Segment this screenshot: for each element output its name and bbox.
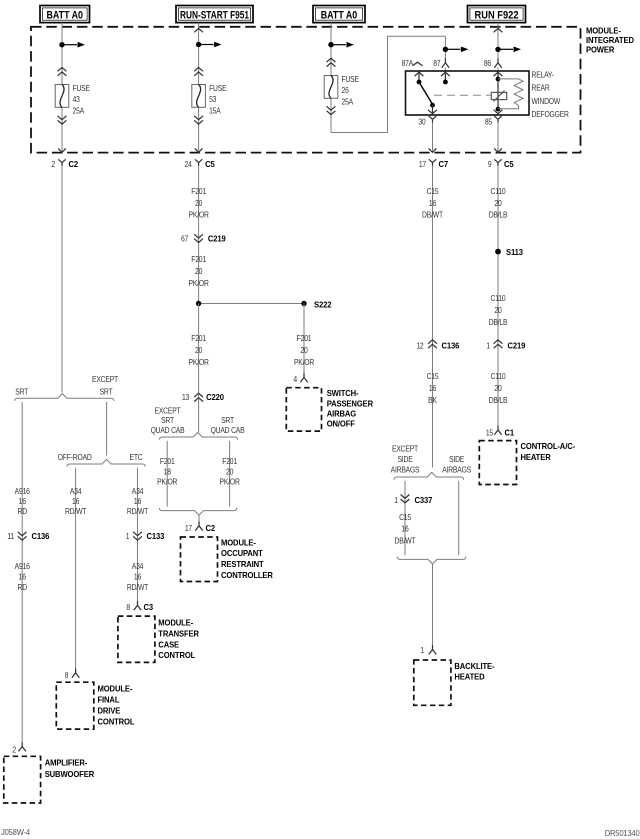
svg-text:20: 20 <box>195 198 202 208</box>
svg-text:SIDE: SIDE <box>397 454 412 464</box>
svg-text:A916: A916 <box>15 486 30 496</box>
svg-text:RD/WT: RD/WT <box>127 506 149 516</box>
svg-text:A916: A916 <box>15 561 30 571</box>
svg-text:SRT: SRT <box>100 387 113 397</box>
svg-text:DB/LB: DB/LB <box>489 317 508 327</box>
svg-text:8: 8 <box>126 602 130 612</box>
svg-text:16: 16 <box>429 383 436 393</box>
svg-text:HEATER: HEATER <box>521 452 551 462</box>
svg-text:FUSE: FUSE <box>342 74 359 84</box>
svg-text:WINDOW: WINDOW <box>532 96 562 106</box>
svg-text:OCCUPANT: OCCUPANT <box>221 549 263 559</box>
svg-text:20: 20 <box>300 345 307 355</box>
svg-text:SWITCH-: SWITCH- <box>327 389 359 399</box>
svg-text:C337: C337 <box>415 495 433 505</box>
svg-text:ON/OFF: ON/OFF <box>327 419 355 429</box>
svg-text:MODULE-: MODULE- <box>586 26 621 36</box>
svg-text:RESTRAINT: RESTRAINT <box>221 560 264 570</box>
svg-text:CONTROL: CONTROL <box>98 717 135 727</box>
svg-text:C136: C136 <box>442 341 460 351</box>
svg-text:C2: C2 <box>69 160 79 170</box>
svg-text:SIDE: SIDE <box>449 454 464 464</box>
svg-text:BATT A0: BATT A0 <box>47 9 84 21</box>
svg-text:18: 18 <box>164 467 171 477</box>
svg-text:C219: C219 <box>208 234 226 244</box>
svg-text:RUN F922: RUN F922 <box>475 9 519 21</box>
svg-text:12: 12 <box>416 341 423 351</box>
svg-text:DR501340: DR501340 <box>605 829 640 838</box>
svg-text:8: 8 <box>65 670 69 680</box>
svg-text:53: 53 <box>209 94 216 104</box>
svg-text:C1: C1 <box>505 428 515 438</box>
svg-text:AMPLIFIER-: AMPLIFIER- <box>45 758 88 768</box>
svg-text:FUSE: FUSE <box>73 83 90 93</box>
svg-text:SRT: SRT <box>15 387 28 397</box>
svg-text:87: 87 <box>433 59 440 69</box>
svg-text:BATT A0: BATT A0 <box>321 9 358 21</box>
svg-text:F201: F201 <box>222 456 237 466</box>
svg-text:86: 86 <box>484 59 491 69</box>
svg-text:1: 1 <box>394 495 398 505</box>
svg-text:PK/OR: PK/OR <box>157 477 178 487</box>
svg-text:16: 16 <box>19 572 26 582</box>
svg-text:20: 20 <box>494 305 501 315</box>
svg-text:CONTROL: CONTROL <box>158 651 195 661</box>
svg-text:AIRBAGS: AIRBAGS <box>391 465 420 475</box>
svg-text:17: 17 <box>185 523 192 533</box>
svg-text:20: 20 <box>494 198 501 208</box>
svg-text:RD/WT: RD/WT <box>127 582 149 592</box>
svg-text:RELAY-: RELAY- <box>532 70 555 80</box>
svg-text:A34: A34 <box>70 486 81 496</box>
svg-text:2: 2 <box>51 159 55 169</box>
svg-text:1: 1 <box>420 645 424 655</box>
svg-text:26: 26 <box>342 85 349 95</box>
svg-text:EXCEPT: EXCEPT <box>392 444 418 454</box>
svg-text:C110: C110 <box>491 293 506 303</box>
svg-text:TRANSFER: TRANSFER <box>158 629 199 639</box>
svg-text:ETC: ETC <box>130 452 144 462</box>
svg-text:QUAD CAB: QUAD CAB <box>151 425 185 435</box>
svg-text:CONTROL-A/C-: CONTROL-A/C- <box>521 441 576 451</box>
svg-text:F201: F201 <box>160 456 175 466</box>
svg-text:A34: A34 <box>132 486 143 496</box>
svg-text:DB/WT: DB/WT <box>422 210 443 220</box>
svg-text:AIRBAG: AIRBAG <box>327 409 356 419</box>
svg-text:9: 9 <box>488 159 492 169</box>
svg-text:DB/LB: DB/LB <box>489 210 508 220</box>
svg-text:15A: 15A <box>209 106 222 116</box>
svg-text:RD: RD <box>17 582 27 592</box>
svg-text:1: 1 <box>126 531 130 541</box>
svg-text:85: 85 <box>485 117 492 127</box>
svg-text:87A: 87A <box>402 59 415 69</box>
svg-text:INTEGRATED: INTEGRATED <box>586 36 634 46</box>
svg-text:C15: C15 <box>399 512 411 522</box>
svg-text:13: 13 <box>182 392 189 402</box>
svg-text:RUN-START F951: RUN-START F951 <box>180 9 249 21</box>
svg-text:C15: C15 <box>427 187 439 197</box>
svg-text:16: 16 <box>401 524 408 534</box>
svg-text:QUAD CAB: QUAD CAB <box>211 425 245 435</box>
svg-text:CASE: CASE <box>158 640 179 650</box>
svg-text:PK/OR: PK/OR <box>294 357 315 367</box>
svg-text:DB/LB: DB/LB <box>489 395 508 405</box>
svg-text:4: 4 <box>293 375 297 385</box>
svg-text:PK/OR: PK/OR <box>189 210 210 220</box>
svg-text:DEFOGGER: DEFOGGER <box>532 109 570 119</box>
svg-text:HEATED: HEATED <box>454 672 484 682</box>
svg-text:16: 16 <box>134 572 141 582</box>
svg-text:11: 11 <box>7 531 14 541</box>
svg-text:FUSE: FUSE <box>209 83 226 93</box>
svg-text:FINAL: FINAL <box>98 695 120 705</box>
svg-text:MODULE-: MODULE- <box>221 538 256 548</box>
svg-text:CONTROLLER: CONTROLLER <box>221 571 273 581</box>
svg-text:20: 20 <box>494 383 501 393</box>
svg-text:AIRBAGS: AIRBAGS <box>442 465 471 475</box>
svg-text:EXCEPT: EXCEPT <box>155 406 181 416</box>
svg-text:PASSENGER: PASSENGER <box>327 399 373 409</box>
svg-text:SUBWOOFER: SUBWOOFER <box>45 769 95 779</box>
svg-text:MODULE-: MODULE- <box>98 684 133 694</box>
svg-text:F201: F201 <box>191 187 206 197</box>
svg-text:PK/OR: PK/OR <box>189 278 210 288</box>
svg-text:RD: RD <box>17 506 27 516</box>
svg-text:POWER: POWER <box>586 45 614 55</box>
svg-text:67: 67 <box>181 234 188 244</box>
svg-text:16: 16 <box>72 496 79 506</box>
svg-text:C5: C5 <box>205 160 215 170</box>
svg-text:25A: 25A <box>342 97 355 107</box>
svg-text:30: 30 <box>418 117 425 127</box>
svg-text:17: 17 <box>419 159 426 169</box>
svg-text:BK: BK <box>428 395 437 405</box>
svg-text:PK/OR: PK/OR <box>220 477 241 487</box>
svg-text:SRT: SRT <box>221 416 234 426</box>
svg-text:SRT: SRT <box>161 416 174 426</box>
svg-text:C220: C220 <box>206 392 224 402</box>
svg-text:F201: F201 <box>191 333 206 343</box>
svg-text:EXCEPT: EXCEPT <box>92 375 118 385</box>
svg-text:REAR: REAR <box>532 83 551 93</box>
svg-text:S113: S113 <box>506 248 523 258</box>
svg-text:25A: 25A <box>73 106 86 116</box>
svg-text:C133: C133 <box>147 532 165 542</box>
svg-text:43: 43 <box>73 94 80 104</box>
svg-text:PK/OR: PK/OR <box>189 357 210 367</box>
svg-text:C5: C5 <box>504 160 514 170</box>
svg-text:MODULE-: MODULE- <box>158 618 193 628</box>
svg-text:RD/WT: RD/WT <box>65 506 87 516</box>
svg-text:C110: C110 <box>491 371 506 381</box>
svg-text:C219: C219 <box>508 341 526 351</box>
svg-text:16: 16 <box>429 198 436 208</box>
svg-text:C15: C15 <box>427 371 439 381</box>
svg-text:F201: F201 <box>297 333 312 343</box>
svg-text:16: 16 <box>19 496 26 506</box>
svg-text:16: 16 <box>134 496 141 506</box>
svg-text:DB/WT: DB/WT <box>395 536 416 546</box>
svg-text:15: 15 <box>486 428 493 438</box>
svg-text:C2: C2 <box>206 523 216 533</box>
svg-text:24: 24 <box>184 159 191 169</box>
svg-text:20: 20 <box>195 345 202 355</box>
svg-text:J058W-4: J058W-4 <box>1 828 31 837</box>
svg-text:1: 1 <box>486 341 490 351</box>
svg-text:A34: A34 <box>132 561 143 571</box>
svg-text:C110: C110 <box>491 187 506 197</box>
svg-text:BACKLITE-: BACKLITE- <box>454 661 494 671</box>
svg-text:20: 20 <box>195 266 202 276</box>
svg-text:C3: C3 <box>144 602 154 612</box>
svg-text:20: 20 <box>226 467 233 477</box>
svg-text:2: 2 <box>12 745 16 755</box>
svg-text:C136: C136 <box>32 532 50 542</box>
svg-text:DRIVE: DRIVE <box>98 706 121 716</box>
svg-text:S222: S222 <box>314 300 332 310</box>
svg-text:OFF-ROAD: OFF-ROAD <box>58 452 93 462</box>
svg-text:F201: F201 <box>191 254 206 264</box>
svg-text:C7: C7 <box>439 160 449 170</box>
